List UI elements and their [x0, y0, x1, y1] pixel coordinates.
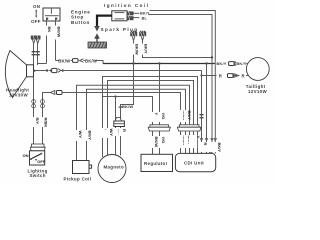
CDI connector labels above — [179, 110, 192, 122]
svg-text:Spark Plug: Spark Plug — [101, 27, 139, 32]
svg-text:ON: ON — [33, 4, 40, 9]
svg-text:Y: Y — [196, 136, 201, 139]
wire: main kill bus BK/W to taillight — [103, 63, 216, 65]
svg-text:Y/G: Y/G — [161, 137, 166, 144]
connector pair on lighting switch feed — [47, 90, 65, 95]
wire: taillight branch drop — [201, 71, 203, 154]
wire: kill lead to CDI — [206, 64, 208, 154]
svg-text:R/Y: R/Y — [35, 118, 40, 125]
svg-text:ON: ON — [23, 153, 29, 158]
connector pair on kill wire — [71, 59, 85, 63]
svg-text:OFF: OFF — [31, 19, 41, 24]
CDI unit box — [175, 153, 215, 171]
svg-text:W/Y: W/Y — [109, 129, 114, 137]
svg-text:BK/W: BK/W — [135, 44, 140, 55]
bullet connector marks left lead — [32, 51, 36, 55]
svg-text:Magneto: Magneto — [104, 165, 125, 170]
svg-text:R/BK: R/BK — [44, 118, 49, 128]
svg-text:BK/Y: BK/Y — [187, 111, 192, 121]
svg-text:BK/Y: BK/Y — [140, 12, 150, 16]
svg-text:BK/Y: BK/Y — [144, 44, 149, 54]
svg-text:OFF: OFF — [37, 159, 46, 164]
svg-text:12V10W: 12V10W — [248, 89, 267, 94]
svg-text:Button: Button — [71, 20, 90, 25]
magneto — [98, 155, 126, 183]
pickup wire labels — [75, 130, 93, 141]
junction dot kill bus / coil drop — [211, 56, 213, 58]
coil harness connector 1 (BK/W) — [130, 31, 139, 64]
svg-text:Regulator: Regulator — [144, 161, 168, 166]
svg-text:BK: BK — [47, 27, 52, 33]
taillight lamp — [246, 58, 269, 81]
svg-text:BL: BL — [142, 16, 148, 20]
svg-text:R: R — [122, 129, 127, 132]
wire: ESB right BK/W down and right — [54, 20, 62, 61]
svg-text:Pickup Coil: Pickup Coil — [64, 177, 92, 182]
engine stop button toggle arrow — [35, 9, 37, 17]
regulator box — [141, 154, 173, 171]
engine stop button switch box — [43, 8, 60, 21]
CDI connector — [177, 125, 201, 131]
spark plug ground — [88, 42, 107, 48]
wire: magneto lead 2 to CDI — [108, 81, 194, 156]
wire: pickup lead 1 to CDI — [77, 85, 190, 160]
svg-text:CDI Unit: CDI Unit — [184, 161, 204, 166]
pickup coil box — [73, 161, 92, 174]
svg-text:BK/W: BK/W — [122, 104, 133, 109]
svg-text:Ignition Coil: Ignition Coil — [104, 3, 149, 8]
svg-text:Switch: Switch — [30, 173, 46, 178]
regulator leads below connector — [151, 131, 166, 154]
wire: taillight BK/Y labels over bus — [216, 61, 248, 67]
regulator connector labels above — [151, 112, 166, 122]
lighting switch connector — [30, 144, 45, 151]
svg-text:BK/W: BK/W — [58, 58, 71, 63]
label on lighting switch feed — [40, 117, 48, 127]
coil harness connector 2 (BK/Y) — [139, 31, 212, 58]
svg-text:R: R — [203, 143, 208, 146]
svg-text:Stop: Stop — [71, 15, 84, 20]
wire: taillight R with connector — [202, 73, 249, 79]
spark plug arrow up — [94, 33, 100, 39]
svg-text:Y/G: Y/G — [161, 113, 166, 120]
CDI right lead chevrons and labels — [205, 138, 213, 153]
wire: magneto lead 1 to CDI — [103, 77, 198, 158]
regulator connector — [148, 125, 170, 131]
label: Headlight 12V30W — [6, 88, 29, 98]
wire: headlight feed with connectors — [34, 68, 202, 72]
label: Taillight 12V10W — [246, 84, 268, 94]
svg-text:BK/W: BK/W — [56, 27, 61, 38]
wire: magneto lead 3 to regulator — [103, 97, 153, 155]
wire: regulator right lead from kill bus — [159, 64, 161, 126]
CDI leads below connector — [179, 131, 201, 153]
oval connectors on lighting switch feed — [41, 100, 45, 109]
lighting switch box — [23, 151, 46, 165]
svg-text:BK/Y: BK/Y — [88, 131, 93, 141]
tick on magneto lead 4 — [119, 107, 123, 108]
svg-text:W/Y: W/Y — [78, 131, 83, 139]
oval connectors on down lead — [32, 100, 36, 109]
magneto 2-pin connector — [114, 118, 125, 127]
headlight connector 2-pin — [31, 36, 41, 44]
svg-text:BK/Y: BK/Y — [217, 143, 222, 153]
label on down lead — [31, 117, 39, 127]
svg-text:BK/Y: BK/Y — [236, 61, 246, 66]
wire: lighting switch feed to CDI — [43, 93, 181, 154]
HT lead thick wire — [97, 16, 112, 27]
wire: headlight down lead to lighting switch — [33, 77, 35, 144]
wire: kill bus jog down — [96, 61, 104, 64]
spark plug arrow down — [94, 26, 100, 32]
wire: pickup lead 2 to CDI — [87, 89, 186, 160]
label: Engine Stop Button — [71, 9, 91, 24]
wire: ESB left BK down to headlight node — [38, 20, 53, 64]
svg-text:BK/Y: BK/Y — [216, 61, 226, 66]
wire headlight ground lead — [33, 44, 35, 65]
svg-text:12V30W: 12V30W — [9, 92, 28, 97]
headlight reflector — [5, 51, 33, 98]
junction dot kill bus at coil connector wire — [132, 62, 134, 64]
wire: coil top lead to right drop — [150, 11, 216, 154]
bullet marks on taillight branch drop — [200, 114, 204, 118]
headlight feed node dot — [33, 70, 35, 72]
wire headlight supply lead — [37, 44, 39, 65]
wire: magneto lead 4 BK/W jog to coil connector drop — [121, 64, 134, 156]
bullet connector marks right lead — [36, 51, 40, 55]
label: Lighting Switch — [28, 168, 48, 178]
magneto wire labels — [101, 128, 127, 138]
wire: coil second lead to right drop — [149, 15, 213, 154]
ignition coil U1 — [112, 11, 140, 21]
